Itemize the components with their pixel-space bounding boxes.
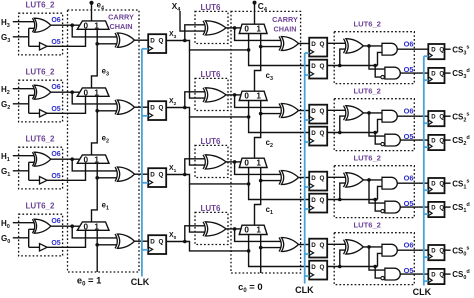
buffer gate O5 (left LUT, bit 3): [40, 43, 48, 50]
XOR sum gate chain1 (bit 0): [117, 234, 134, 248]
LUT6_2 dashed box (left, bit 3): [19, 13, 63, 55]
wire H1 to XOR O6: [13, 155, 34, 157]
wire O5 to MUXCY1 0-input (bit 2): [47, 96, 85, 113]
XOR gate (right LUT, bit 3): [346, 39, 363, 53]
svg-text:D Q: D Q: [431, 47, 444, 53]
D flip-flop X0: [148, 235, 166, 254]
node c0 junction (bit 0): [259, 246, 263, 250]
svg-text:D Q: D Q: [311, 175, 324, 182]
XOR gate O6 (left LUT, bit 0): [34, 219, 51, 233]
MUXCY mux carry chain 2 (bit 1): [239, 158, 267, 167]
D flip-flop CS2d: [428, 135, 444, 150]
svg-text:1: 1: [256, 226, 261, 235]
D flip-flop pair-s (bit 2): [309, 105, 327, 124]
wire X1 up-leg to LUT6 XOR top input: [185, 159, 205, 175]
node Qd junction 2 (bit 3): [373, 64, 377, 68]
node c2 junction (bit 2): [259, 112, 263, 116]
svg-text:LUT6_2: LUT6_2: [353, 220, 380, 229]
svg-text:LUT6_2: LUT6_2: [26, 201, 55, 210]
D flip-flop CS1d: [428, 202, 444, 217]
wire CLK to DFF CS2s: [424, 122, 429, 124]
wire Qs to XOR3 (bit 3): [327, 42, 345, 44]
wire O5 to output DFF (bit 1): [400, 206, 428, 208]
wire Qd riser to AND bottom input (bit 2): [378, 119, 383, 132]
wire Qd dropper to inverted input (bit 0): [375, 267, 381, 279]
wire CLK to DFF CS3s: [424, 55, 429, 57]
wire Qd riser to AND bottom input (bit 0): [378, 253, 383, 266]
wire G1 branch to XOR and buffer: [29, 162, 40, 180]
wire CLK to DFF CS1s: [424, 189, 429, 191]
svg-text:D Q: D Q: [311, 197, 324, 204]
wire O6 to MUXCY1 select (bit 2): [51, 91, 80, 93]
wire G2: [13, 103, 29, 105]
wire O5 to MUXCY1 0-input (bit 0): [47, 230, 85, 247]
carry chain 1 dashed box: [68, 10, 140, 272]
node XOR3 out junction (bit 1): [367, 178, 371, 182]
svg-text:0: 0: [244, 92, 249, 101]
D flip-flop pair-d (bit 1): [309, 194, 327, 213]
CLK line 2 (blue): [304, 53, 306, 284]
wire Qd riser to XOR3 bottom input (bit 3): [340, 49, 345, 65]
wire O6 branch to sum XOR (bit 3): [72, 25, 116, 37]
XOR gate (right LUT, bit 1): [346, 173, 363, 187]
wire CLK to DFF pair-s (bit 2): [305, 119, 310, 121]
node Qd junction 2 (bit 1): [373, 198, 377, 202]
LUT6 dashed box (middle, bit 1): [195, 145, 228, 177]
wire Qd dropper to inverted input (bit 1): [375, 200, 381, 212]
wire XOR3 dropper to NAND top input (bit 2): [369, 113, 386, 136]
AND gate O6 (right LUT, bit 0): [382, 244, 397, 256]
wire CLK to DFF pair-d (bit 3): [305, 74, 310, 76]
XOR sum gate chain2 (bit 1): [281, 171, 298, 185]
wire G0: [13, 237, 29, 239]
node Qd junction 1 (bit 1): [338, 198, 342, 202]
wire MUXCY2 0-input from X0 (bit 0): [249, 235, 310, 267]
node XOR3 out junction (bit 0): [367, 245, 371, 249]
svg-text:1: 1: [256, 25, 261, 34]
wire XOR3 out (bit 1): [363, 179, 382, 181]
svg-text:CARRY: CARRY: [272, 15, 298, 24]
wire G3: [13, 36, 29, 38]
wire CLK to DFF pair-s (bit 0): [305, 253, 310, 255]
wire H2 to XOR O6: [13, 88, 34, 90]
wire X3 down-leg to LUT6 XOR bottom input (bit 2): [190, 50, 205, 98]
D flip-flop X1: [148, 168, 166, 187]
svg-text:LUT6_2: LUT6_2: [353, 153, 380, 162]
svg-text:D Q: D Q: [150, 239, 163, 246]
svg-text:O6: O6: [51, 17, 60, 24]
wire MUXCY2 0-input from X3 (bit 3): [249, 34, 310, 66]
XOR gate O6 (left LUT, bit 1): [34, 152, 51, 166]
wire e3 branch to sum XOR (bit 3): [97, 43, 116, 45]
node Qd junction 1 (bit 0): [338, 265, 342, 269]
wire O5 to MUXCY1 0-input (bit 1): [47, 163, 85, 180]
node c3 junction (bit 3): [259, 45, 263, 49]
LUT6_2 dashed box (right, bit 2): [334, 99, 414, 151]
svg-text:LUT6: LUT6: [201, 3, 222, 12]
svg-text:D Q: D Q: [150, 38, 163, 45]
node XOR3 out junction (bit 3): [367, 44, 371, 48]
svg-text:CHAIN: CHAIN: [109, 22, 132, 31]
svg-text:O5: O5: [51, 173, 60, 180]
inverter bubble on AND O5 input (bit 1): [381, 209, 384, 212]
wire H0 to XOR O6: [13, 222, 34, 224]
node MUXCY2 0-input junction (bit 1): [247, 182, 251, 186]
wire Qd riser to XOR3 bottom input (bit 0): [340, 250, 345, 266]
wire O6 branch to sum XOR (bit 2): [72, 92, 116, 104]
wire Qd riser to AND bottom input (bit 1): [378, 186, 383, 199]
wire X0 up-leg to LUT6 XOR top input: [185, 226, 205, 242]
LUT6_2 dashed box (left, bit 0): [19, 214, 63, 256]
wire P2 branch to sum XOR2 (bit 2): [235, 95, 281, 108]
node C4 terminal: [253, 1, 257, 5]
wire LUT6 XOR out to MUXCY2 select (bit 0): [226, 228, 241, 230]
svg-text:D Q: D Q: [311, 108, 324, 115]
svg-text:O5: O5: [51, 106, 60, 113]
wire XOR2 out to DFF pair (bit 3): [299, 43, 310, 45]
wire H3 to XOR O6: [13, 21, 34, 23]
svg-text:D Q: D Q: [431, 71, 444, 77]
svg-text:D Q: D Q: [311, 41, 324, 48]
wire X2 down-leg to LUT6 XOR bottom input (bit 1): [190, 117, 205, 165]
svg-text:O5: O5: [51, 39, 60, 46]
wire P1 branch to sum XOR2 (bit 1): [235, 162, 281, 175]
svg-text:CLK: CLK: [131, 277, 150, 287]
node O6 junction (bit 0): [70, 224, 74, 228]
svg-text:O6: O6: [404, 40, 414, 49]
svg-text:1: 1: [94, 156, 99, 165]
D flip-flop X3: [148, 34, 166, 53]
XOR gate (right LUT, bit 2): [346, 106, 363, 120]
svg-text:O5: O5: [51, 240, 60, 247]
node Qd junction 1 (bit 3): [338, 64, 342, 68]
wire Qd riser to XOR3 bottom input (bit 2): [340, 116, 345, 132]
node X2 junction: [183, 106, 187, 110]
AND gate O6 (right LUT, bit 2): [382, 110, 397, 122]
svg-text:D Q: D Q: [431, 272, 444, 278]
node O6 junction (bit 1): [70, 157, 74, 161]
AND gate O5 (right LUT, bit 2): [385, 134, 400, 146]
node e0 junction (bit 0): [95, 243, 99, 247]
wire carry c1 (chain2 inter-row): [255, 168, 261, 226]
node e2 junction (bit 2): [95, 109, 99, 113]
wire O5 to output DFF (bit 3): [400, 72, 428, 74]
wire O6 to output DFF (bit 1): [397, 182, 428, 184]
wire CLK to DFF CS1d: [424, 213, 429, 215]
D flip-flop pair-s (bit 3): [309, 38, 327, 57]
wire G3 branch to XOR and buffer: [29, 28, 40, 46]
wire O6 branch to sum XOR (bit 1): [72, 159, 116, 171]
wire XOR3 dropper to NAND top input (bit 3): [369, 46, 386, 69]
svg-text:LUT6_2: LUT6_2: [26, 0, 55, 9]
wire carry e1 (chain1 inter-row): [92, 163, 98, 222]
wire c3 branch to sum XOR2 (bit 3): [261, 46, 281, 48]
wire O5 to output DFF (bit 0): [400, 273, 428, 275]
D flip-flop pair-d (bit 0): [309, 261, 327, 280]
svg-text:CLK: CLK: [413, 287, 432, 297]
wire X2 up-leg to LUT6 XOR top input: [185, 92, 205, 108]
wire Qd riser to XOR3 bottom input (bit 1): [340, 183, 345, 199]
wire X3 up-leg to LUT6 XOR top input: [185, 25, 205, 41]
node c1 junction (bit 1): [259, 179, 263, 183]
MUXCY mux carry chain 1 (bit 0): [77, 222, 109, 230]
XOR sum gate chain1 (bit 2): [117, 100, 134, 114]
wire CLK to DFF X1: [142, 182, 148, 184]
wire X0 net from Q: [166, 242, 248, 251]
svg-text:LUT6: LUT6: [201, 70, 222, 79]
node Qd junction 2 (bit 2): [373, 131, 377, 135]
D flip-flop CS0s: [428, 245, 444, 260]
LUT6 dashed box (middle, bit 0): [195, 212, 228, 244]
svg-text:0: 0: [244, 226, 249, 235]
wire Qd net (bit 1): [327, 199, 377, 201]
svg-text:0: 0: [84, 89, 89, 98]
wire Qs to XOR3 (bit 1): [327, 176, 345, 178]
wire XOR3 dropper to NAND top input (bit 1): [369, 180, 386, 203]
D flip-flop CS3d: [428, 68, 444, 83]
wire G0 branch to XOR and buffer: [29, 229, 40, 247]
svg-text:0: 0: [244, 159, 249, 168]
wire carry out C4: [254, 3, 256, 24]
svg-text:D Q: D Q: [150, 105, 163, 112]
XOR sum gate chain2 (bit 0): [281, 238, 298, 252]
wire CLK to DFF pair-d (bit 0): [305, 275, 310, 277]
wire carry e3 (chain1 inter-row): [92, 29, 98, 88]
node MUXCY2 0-input junction (bit 3): [247, 48, 251, 52]
LUT6_2 dashed box (left, bit 1): [19, 147, 63, 189]
node P0 junction: [233, 227, 237, 231]
wire e0 branch to sum XOR (bit 0): [97, 244, 116, 246]
MUXCY mux carry chain 1 (bit 2): [77, 88, 109, 96]
wire O5 to output DFF (bit 2): [400, 139, 428, 141]
wire G1: [13, 170, 29, 172]
CLK line 1 (blue): [141, 49, 143, 277]
XOR gate (middle LUT6, bit 0): [205, 222, 226, 236]
node O6 junction (bit 2): [70, 90, 74, 94]
wire CLK to DFF X2: [142, 115, 148, 117]
svg-text:D Q: D Q: [311, 264, 324, 271]
wire CLK to DFF pair-d (bit 2): [305, 141, 310, 143]
wire XOR3 out (bit 2): [363, 112, 382, 114]
svg-text:1: 1: [94, 223, 99, 232]
wire CLK to DFF CS3d: [424, 79, 429, 81]
wire G2 branch to XOR and buffer: [29, 95, 40, 113]
svg-text:D Q: D Q: [311, 63, 324, 70]
AND gate O5 (right LUT, bit 1): [385, 201, 400, 213]
wire O6 to MUXCY1 select (bit 3): [51, 24, 80, 26]
buffer gate O5 (left LUT, bit 2): [40, 110, 48, 117]
svg-text:O6: O6: [404, 241, 414, 250]
XOR gate (middle LUT6, bit 3): [205, 21, 226, 35]
wire Qd net (bit 0): [327, 266, 377, 268]
wire XOR1 out to DFF X3 (bit 3): [135, 39, 149, 41]
node P3 junction: [233, 26, 237, 30]
buffer gate O5 (left LUT, bit 1): [40, 177, 48, 184]
wire XOR1 out to DFF X2 (bit 2): [135, 106, 149, 108]
wire carry out e4: [91, 3, 93, 21]
wire O6 to output DFF (bit 3): [397, 48, 428, 50]
wire CLK to DFF CS2d: [424, 146, 429, 148]
CLK line 3 (blue): [423, 56, 425, 285]
D flip-flop CS0d: [428, 269, 444, 284]
svg-text:LUT6_2: LUT6_2: [26, 67, 55, 76]
node X0 junction: [183, 240, 187, 244]
wire O5 to MUXCY1 0-input (bit 3): [47, 29, 85, 46]
wire XOR3 out (bit 0): [363, 246, 382, 248]
XOR gate O6 (left LUT, bit 2): [34, 85, 51, 99]
LUT6 dashed box (middle, bit 3): [195, 11, 228, 43]
wire output CS0s: [445, 249, 451, 251]
wire e1 branch to sum XOR (bit 1): [97, 177, 116, 179]
node MUXCY2 0-input junction (bit 0): [247, 249, 251, 253]
svg-text:D Q: D Q: [431, 138, 444, 144]
wire LUT6 XOR out to MUXCY2 select (bit 2): [226, 94, 241, 96]
svg-text:D Q: D Q: [150, 172, 163, 179]
AND gate O5 (right LUT, bit 3): [385, 67, 400, 79]
svg-text:D Q: D Q: [431, 248, 444, 254]
wire XOR3 dropper to NAND top input (bit 0): [369, 247, 386, 270]
D flip-flop pair-s (bit 1): [309, 172, 327, 191]
wire carry c3 (chain2 inter-row): [255, 34, 261, 92]
svg-text:LUT6_2: LUT6_2: [26, 134, 55, 143]
node e1 junction (bit 1): [95, 176, 99, 180]
XOR gate (middle LUT6, bit 1): [205, 155, 226, 169]
wire X3 net from Q: [166, 41, 248, 50]
wire CLK to DFF pair-d (bit 1): [305, 208, 310, 210]
wire Qd net (bit 3): [327, 65, 377, 67]
wire Qd riser to AND bottom input (bit 3): [378, 52, 383, 65]
svg-text:1: 1: [94, 22, 99, 31]
wire X1 down-leg to LUT6 XOR bottom input (bit 0): [190, 184, 205, 232]
svg-text:CARRY: CARRY: [108, 13, 134, 22]
wire XOR2 out to DFF pair (bit 1): [299, 177, 310, 179]
wire MUXCY2 0-input from X1 (bit 1): [249, 168, 310, 200]
wire LUT6 XOR out to MUXCY2 select (bit 1): [226, 161, 241, 163]
inverter bubble on AND O5 input (bit 3): [381, 75, 384, 78]
svg-text:O6: O6: [404, 107, 414, 116]
wire c0 branch to sum XOR2 (bit 0): [261, 247, 281, 249]
svg-text:0: 0: [244, 25, 249, 34]
node X1 junction: [183, 173, 187, 177]
MUXCY mux carry chain 2 (bit 0): [239, 225, 267, 234]
LUT6_2 dashed box (left, bit 2): [19, 80, 63, 122]
MUXCY mux carry chain 2 (bit 2): [239, 91, 267, 100]
wire XOR1 out to DFF X0 (bit 0): [135, 240, 149, 242]
XOR sum gate chain1 (bit 1): [117, 167, 134, 181]
wire Qd net (bit 2): [327, 132, 377, 134]
inverter bubble on AND O5 input (bit 0): [381, 276, 384, 279]
svg-text:O6: O6: [51, 218, 60, 225]
svg-text:O6: O6: [51, 84, 60, 91]
wire c1 branch to sum XOR2 (bit 1): [261, 180, 281, 182]
wire output CS2d: [445, 139, 451, 141]
wire c2 branch to sum XOR2 (bit 2): [261, 113, 281, 115]
XOR gate (middle LUT6, bit 2): [205, 88, 226, 102]
node Qd junction 2 (bit 0): [373, 265, 377, 269]
wire CLK to DFF X0: [142, 249, 148, 251]
AND gate O6 (right LUT, bit 1): [382, 177, 397, 189]
node e4 terminal: [89, 1, 93, 5]
wire P0 branch to sum XOR2 (bit 0): [235, 229, 281, 242]
node e3 junction (bit 3): [95, 42, 99, 46]
wire output CS1s: [445, 182, 451, 184]
node XOR3 out junction (bit 2): [367, 111, 371, 115]
XOR gate (right LUT, bit 0): [346, 240, 363, 254]
XOR sum gate chain1 (bit 3): [117, 33, 134, 47]
node Qd junction 1 (bit 2): [338, 131, 342, 135]
D flip-flop CS2s: [428, 111, 444, 126]
wire X2 net from Q: [166, 108, 248, 117]
wire P3 branch to sum XOR2 (bit 3): [235, 28, 281, 41]
wire output CS3d: [445, 72, 451, 74]
wire CLK to DFF CS0s: [424, 256, 429, 258]
buffer gate O5 (left LUT, bit 0): [40, 244, 48, 251]
svg-text:LUT6: LUT6: [201, 137, 222, 146]
D flip-flop pair-d (bit 2): [309, 127, 327, 146]
wire Qd dropper to inverted input (bit 2): [375, 133, 381, 145]
D flip-flop pair-d (bit 3): [309, 60, 327, 79]
wire XOR1 out to DFF X1 (bit 1): [135, 173, 149, 175]
svg-text:D Q: D Q: [311, 130, 324, 137]
svg-text:D Q: D Q: [431, 181, 444, 187]
wire LUT6 XOR out to MUXCY2 select (bit 3): [226, 27, 241, 29]
wire output CS2s: [445, 115, 451, 117]
svg-text:0: 0: [84, 156, 89, 165]
LUT6 dashed box (middle, bit 2): [195, 78, 228, 110]
LUT6_2 dashed box (right, bit 1): [334, 166, 414, 218]
XOR sum gate chain2 (bit 3): [281, 37, 298, 51]
D flip-flop CS3s: [428, 44, 444, 59]
wire O6 to output DFF (bit 2): [397, 115, 428, 117]
node P2 junction: [233, 93, 237, 97]
svg-text:0: 0: [84, 22, 89, 31]
svg-text:CLK: CLK: [295, 285, 314, 295]
node X3 junction: [183, 39, 187, 43]
wire XOR2 out to DFF pair (bit 0): [299, 244, 310, 246]
wire O6 to MUXCY1 select (bit 0): [51, 225, 80, 227]
wire output CS0d: [445, 273, 451, 275]
svg-text:D Q: D Q: [431, 114, 444, 120]
wire XOR3 out (bit 3): [363, 45, 382, 47]
XOR gate O6 (left LUT, bit 3): [34, 18, 51, 32]
inverter bubble on AND O5 input (bit 2): [381, 142, 384, 145]
AND gate O6 (right LUT, bit 3): [382, 43, 397, 55]
wire MUXCY2 0-input from X2 (bit 2): [249, 101, 310, 133]
wire O6 to MUXCY1 select (bit 1): [51, 158, 80, 160]
wire e2 branch to sum XOR (bit 2): [97, 110, 116, 112]
node MUXCY2 0-input junction (bit 2): [247, 115, 251, 119]
svg-text:CHAIN: CHAIN: [273, 24, 296, 33]
D flip-flop X2: [148, 101, 166, 120]
wire X1 net from Q: [166, 175, 248, 184]
svg-text:1: 1: [256, 159, 261, 168]
D flip-flop CS1s: [428, 178, 444, 193]
wire Qs to XOR3 (bit 0): [327, 243, 345, 245]
svg-text:LUT6_2: LUT6_2: [353, 19, 380, 28]
wire Qd dropper to inverted input (bit 3): [375, 66, 381, 78]
carry chain 2 dashed box: [231, 11, 301, 273]
wire CLK to DFF pair-s (bit 3): [305, 52, 310, 54]
MUXCY mux carry chain 1 (bit 1): [77, 155, 109, 163]
MUXCY mux carry chain 2 (bit 3): [239, 24, 267, 33]
LUT6_2 dashed box (right, bit 0): [334, 233, 414, 285]
wire O6 to output DFF (bit 0): [397, 249, 428, 251]
wire output CS3s: [445, 48, 451, 50]
wire Qs to XOR3 (bit 2): [327, 109, 345, 111]
svg-text:D Q: D Q: [311, 242, 324, 249]
XOR sum gate chain2 (bit 2): [281, 104, 298, 118]
wire O6 branch to sum XOR (bit 0): [72, 226, 116, 238]
